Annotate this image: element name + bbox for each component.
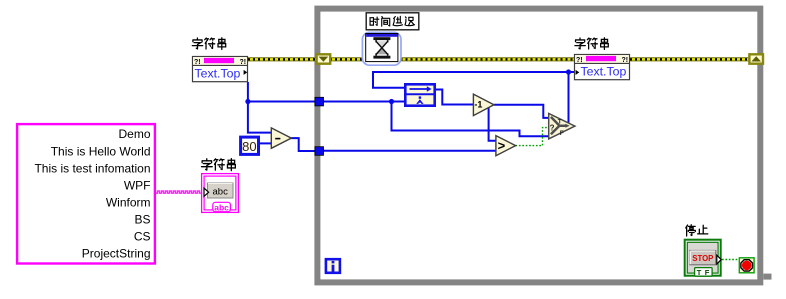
svg-text:Winform: Winform: [106, 196, 151, 210]
svg-text:abc: abc: [214, 202, 229, 212]
select function U4: [549, 113, 575, 138]
wire: refnum right property node to right shift register: [630, 57, 750, 61]
stop button terminal: [685, 240, 722, 277]
constant 80: [241, 137, 259, 154]
shift register right (up arrow): [749, 54, 763, 63]
svg-text:STOP: STOP: [692, 254, 713, 263]
wire: boolean stop button to loop condition (green dotted): [722, 259, 740, 261]
svg-text:CS: CS: [134, 230, 151, 244]
svg-text:abc: abc: [213, 186, 229, 197]
label 字符串 (string indicator): [202, 159, 236, 171]
wire: tunnel 2 to greater lower input: [321, 150, 497, 152]
svg-text:F: F: [705, 268, 710, 277]
loop condition terminal (stop sign): [739, 258, 754, 273]
loop tunnel 2: [315, 147, 324, 156]
wire: string constant to string indicator (pink squiggle): [156, 191, 202, 193]
rotate string U3: [405, 84, 434, 105]
label 字符串 (left property node): [192, 38, 225, 50]
svg-text:This is test infomation: This is test infomation: [34, 161, 150, 175]
wire: refnum left SR to time delay: [330, 57, 363, 61]
wire: boolean greater output to select s input (green dotted): [516, 128, 549, 146]
wire: junction down and across to select f input: [392, 102, 550, 137]
wire: decrement output to select t input: [494, 105, 549, 118]
svg-text:BS: BS: [134, 213, 150, 227]
svg-text:80: 80: [242, 139, 256, 154]
shift register left (down arrow): [317, 54, 331, 63]
label 停止 (stop button): [686, 225, 708, 236]
svg-text:?!: ?!: [240, 59, 247, 66]
svg-text:Text.Top: Text.Top: [581, 64, 627, 78]
svg-text:?!: ?!: [194, 59, 201, 66]
svg-text:Demo: Demo: [118, 127, 150, 141]
svg-text:?: ?: [550, 124, 555, 133]
svg-text:-1: -1: [474, 100, 482, 110]
property node U1 (read Text.Top): [193, 57, 248, 82]
wire: refnum time delay to right property node: [401, 57, 576, 61]
node junction at right property node input: [566, 69, 571, 74]
decrement function: [473, 94, 494, 116]
label 字符串 (right property node): [575, 38, 608, 50]
wire: control refnum (olive dashed) left node to left shift register: [248, 57, 316, 61]
svg-text:F: F: [560, 130, 564, 137]
wire: select output feedback to rotate input and right property node: [373, 72, 575, 123]
wire: rotate string output to decrement: [436, 90, 474, 105]
node junction before rotate string: [389, 99, 394, 104]
node junction on property output wire: [245, 99, 250, 104]
wire: junction to loop tunnel 1: [248, 101, 317, 103]
string indicator 字符串 terminal: [202, 174, 239, 213]
wire: tunnel 1 to rotate string lower input: [321, 101, 405, 103]
svg-text:>: >: [498, 138, 506, 153]
svg-text:WPF: WPF: [124, 178, 151, 192]
svg-text:Text.Top: Text.Top: [195, 66, 241, 80]
svg-text:T: T: [697, 268, 702, 277]
time delay express VI U2: [362, 32, 401, 65]
property node U5 (write Text.Top): [575, 55, 630, 80]
loop tunnel 1: [315, 97, 324, 106]
svg-text:?!: ?!: [622, 57, 629, 64]
wire: constant 80 to subtract: [260, 142, 272, 144]
svg-text:?!: ?!: [576, 57, 583, 64]
label box 时间延迟 (time delay): [366, 13, 419, 30]
iteration terminal i: [326, 259, 340, 273]
subtract function: [271, 128, 291, 148]
greater? function: [496, 136, 516, 156]
svg-text:This is Hello World: This is Hello World: [51, 144, 151, 158]
svg-text:T: T: [558, 119, 562, 126]
wire: left property node output down to junction and subtract: [248, 82, 272, 133]
svg-text:ProjectString: ProjectString: [82, 247, 151, 261]
while loop frame: [317, 9, 771, 283]
wire: decrement output branch down to greater upper input: [489, 105, 497, 141]
string constant (pink box with text): [17, 124, 155, 263]
wire: subtract output to loop tunnel 2: [291, 138, 317, 151]
